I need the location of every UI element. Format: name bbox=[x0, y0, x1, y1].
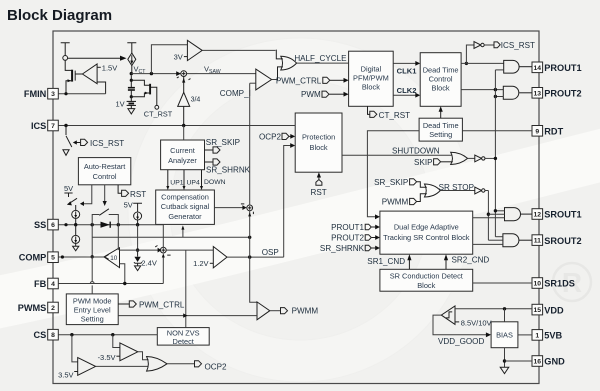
svg-text:PWM: PWM bbox=[301, 90, 321, 99]
wire 5V source down to error node bbox=[137, 225, 139, 250]
wire OSP up to protection bbox=[284, 146, 291, 258]
current source I-SS1 bbox=[72, 205, 80, 225]
buffer 3/4 bbox=[178, 77, 201, 126]
inverter U-ICSRST bbox=[465, 42, 494, 66]
8.5V/10V ref tick bbox=[455, 321, 459, 323]
pin SS 6 bbox=[34, 219, 58, 230]
wire CS to comp2 bbox=[113, 335, 120, 348]
wire SR1_CND arrow bbox=[407, 254, 411, 269]
wire COMP pin bbox=[58, 256, 104, 258]
wire OCP2 flag to protection bbox=[289, 135, 290, 137]
block U-Protection Protection Block bbox=[295, 113, 342, 172]
svg-text:8: 8 bbox=[51, 332, 55, 339]
svg-text:GND: GND bbox=[544, 357, 565, 367]
svg-text:Control: Control bbox=[93, 172, 117, 181]
ground arrow below battery bbox=[128, 109, 135, 114]
wire CS to comp1 bbox=[72, 335, 78, 362]
IC boundary bbox=[53, 31, 539, 384]
svg-text:-3.5V: -3.5V bbox=[98, 353, 116, 362]
svg-text:5V: 5V bbox=[64, 184, 73, 193]
wire comp1 to OR bbox=[96, 365, 149, 367]
svg-text:OSP: OSP bbox=[262, 248, 279, 257]
wire SRconduction to SR1DS pin bbox=[473, 282, 532, 284]
wire DeadTimeCtrl out1 to PROUT1 gate bbox=[461, 62, 504, 64]
block U-DeadTimeCtrl Dead Time Control Block bbox=[420, 53, 461, 107]
wire VDD_GOOD to BIAS bbox=[433, 315, 486, 335]
wire I1 to VCT node bbox=[131, 66, 133, 74]
svg-text:Tracking SR Control Block: Tracking SR Control Block bbox=[383, 233, 470, 242]
pin PROUT2 13 bbox=[532, 88, 582, 99]
svg-text:Current: Current bbox=[170, 146, 195, 155]
pin RDT 9 bbox=[532, 126, 564, 137]
block U-CurrentAnalyzer Current Analyzer bbox=[161, 140, 205, 170]
battery 1V bbox=[127, 97, 136, 109]
wire PWM comp output to OR bbox=[272, 79, 277, 81]
buffer U-PWMM bbox=[257, 302, 270, 320]
wire FMIN pin bbox=[58, 93, 105, 95]
wire mirror down to Q1 bbox=[65, 60, 71, 70]
flag D ICS_RST top bbox=[494, 42, 500, 48]
wire PROUT1 gate lower input bbox=[495, 69, 503, 71]
wire VDD to BIAS top bbox=[504, 309, 506, 322]
pin SROUT1 12 bbox=[532, 209, 582, 220]
svg-text:BIAS: BIAS bbox=[496, 330, 513, 339]
svg-text:SR_SHRNK: SR_SHRNK bbox=[320, 244, 365, 253]
flag D PWMM out bbox=[281, 308, 288, 314]
svg-text:CLK2: CLK2 bbox=[397, 86, 417, 95]
block U-NonZVS NON ZVS Detect bbox=[157, 328, 209, 346]
wire SR STOP bbox=[440, 190, 475, 192]
wire CS pin bbox=[58, 334, 157, 336]
wire gm upper input / error node bbox=[120, 249, 159, 251]
flag D SR_SHRNK analyzer bbox=[205, 161, 213, 163]
svg-text:SR STOP: SR STOP bbox=[439, 183, 474, 192]
svg-text:OCP2: OCP2 bbox=[205, 363, 228, 372]
svg-text:Block: Block bbox=[432, 83, 450, 92]
svg-text:FB: FB bbox=[34, 279, 47, 289]
svg-text:RST: RST bbox=[130, 190, 146, 199]
svg-text:1.2V: 1.2V bbox=[193, 259, 208, 268]
flag D SR_SKIP analyzer bbox=[205, 149, 213, 151]
op-amp U-PWM comparator bbox=[256, 69, 272, 90]
wire SROUT2 input2 bbox=[488, 239, 503, 241]
switch SW-ICSRST bbox=[63, 126, 80, 156]
svg-text:3/4: 3/4 bbox=[191, 97, 201, 104]
op-amp U-VDDGOOD comparator bbox=[441, 306, 455, 325]
svg-text:4: 4 bbox=[51, 281, 55, 288]
svg-text:UP1: UP1 bbox=[170, 179, 183, 186]
wire CLK2 bbox=[393, 94, 416, 96]
wire RST arrow into protection bbox=[318, 177, 320, 179]
inverter U-SHDN-INV bbox=[468, 155, 497, 162]
wire DeadTimeCtrl out2 to PROUT2 gate bbox=[461, 89, 503, 91]
flag D ICS_RST left bbox=[81, 139, 88, 145]
terminal CT_RST bbox=[155, 105, 159, 109]
svg-text:SS: SS bbox=[34, 220, 46, 230]
svg-text:16: 16 bbox=[534, 359, 542, 366]
svg-text:ICS: ICS bbox=[31, 121, 46, 131]
svg-text:3: 3 bbox=[51, 91, 55, 98]
wire DOWN arrow bbox=[200, 170, 203, 190]
svg-text:SR1_CND: SR1_CND bbox=[367, 257, 405, 266]
svg-text:1: 1 bbox=[535, 332, 539, 339]
svg-text:CLK1: CLK1 bbox=[397, 66, 418, 75]
wire SROUT2 to pin bbox=[519, 239, 532, 241]
block U-PWMMode PWM Mode Entry Level Setting bbox=[66, 294, 118, 325]
flag D PWMM gate bbox=[410, 198, 417, 204]
flag RST protection bbox=[316, 180, 322, 186]
wire PWMM to OR bbox=[417, 194, 427, 202]
svg-text:Compensation: Compensation bbox=[161, 193, 209, 202]
svg-text:COMP: COMP bbox=[19, 253, 47, 263]
svg-text:PROUT1: PROUT1 bbox=[331, 223, 364, 232]
wire FMIN feedback bbox=[97, 82, 106, 94]
pin COMP 5 bbox=[19, 252, 59, 263]
wire PWM_CTRL to block bbox=[330, 79, 344, 81]
svg-text:OCP2: OCP2 bbox=[259, 133, 282, 142]
wire FB line up into summer2 bbox=[162, 257, 164, 284]
svg-text:Setting: Setting bbox=[81, 314, 104, 323]
svg-text:Block: Block bbox=[310, 143, 328, 152]
svg-text:5: 5 bbox=[51, 255, 55, 262]
wire summer2 out to 1.2V comp bbox=[166, 249, 213, 251]
wire PWM mode line to buffer bbox=[118, 315, 257, 317]
svg-text:Cutback signal: Cutback signal bbox=[161, 202, 210, 211]
wire SROUT1 input2 bbox=[488, 213, 504, 215]
pin SROUT2 11 bbox=[532, 235, 582, 246]
svg-text:Dead Time: Dead Time bbox=[423, 121, 459, 130]
svg-text:Auto-Restart: Auto-Restart bbox=[84, 162, 126, 171]
block U-DualEdge Dual Edge Adaptive Tracking SR Control Block bbox=[380, 211, 473, 254]
svg-text:PFM/PWM: PFM/PWM bbox=[353, 73, 389, 82]
OR gate U-SHUTDOWN bbox=[451, 152, 468, 164]
svg-text:1V: 1V bbox=[116, 99, 125, 108]
wire OCP2 out bbox=[167, 363, 194, 365]
wire tap to 3V comparator bbox=[151, 45, 187, 74]
supply T-bar over current source bbox=[127, 43, 136, 53]
pin ICS 7 bbox=[31, 120, 58, 131]
node circle A (current mirror) bbox=[63, 56, 68, 61]
wire ICS pin bbox=[58, 125, 295, 127]
svg-text:Block Diagram: Block Diagram bbox=[7, 7, 112, 24]
1.5V ref tick bbox=[97, 66, 101, 68]
wire SR_SHRNK into dualedge bbox=[372, 247, 376, 249]
wire PROUT1 into dualedge bbox=[372, 226, 376, 228]
pin CS 8 bbox=[34, 329, 59, 340]
wire PROUT1 to pin bbox=[520, 66, 533, 68]
svg-text:3.5V: 3.5V bbox=[58, 370, 73, 379]
flag D PWM bbox=[322, 91, 329, 97]
wire PWMM buffer output bbox=[270, 310, 280, 312]
3V ref tick bbox=[184, 56, 188, 58]
svg-text:7: 7 bbox=[51, 123, 55, 130]
svg-text:Analyzer: Analyzer bbox=[168, 156, 197, 165]
svg-text:Entry Level: Entry Level bbox=[74, 305, 111, 314]
wire BIAS to 5VB bbox=[518, 334, 532, 336]
svg-text:RDT: RDT bbox=[544, 127, 563, 137]
wire mirror to current source bbox=[68, 57, 121, 59]
zener D-2.4V bbox=[134, 250, 142, 271]
flag D SKIP bbox=[434, 159, 441, 165]
svg-text:PWM_CTRL: PWM_CTRL bbox=[139, 300, 185, 309]
svg-text:Dual Edge Adaptive: Dual Edge Adaptive bbox=[394, 222, 459, 231]
current source I-SS2 bbox=[72, 225, 80, 251]
svg-text:Dead Time: Dead Time bbox=[423, 65, 459, 74]
flag D PWM_CTRL bbox=[323, 77, 330, 83]
pin FB 4 bbox=[34, 278, 58, 289]
svg-text:SR1DS: SR1DS bbox=[544, 279, 575, 289]
block U-AutoRestart Auto-Restart Control bbox=[78, 158, 130, 185]
AND gate U-PROUT2 bbox=[503, 86, 519, 99]
svg-text:11: 11 bbox=[534, 238, 541, 245]
switch SW-SSdischarge bbox=[67, 185, 92, 206]
wire GND pin bbox=[505, 360, 533, 362]
wire SS pin bbox=[58, 224, 163, 226]
wire CLK1 bbox=[393, 62, 416, 64]
op-amp U-3V comparator bbox=[187, 40, 202, 60]
svg-text:RST: RST bbox=[311, 188, 327, 197]
op-amp U-GM (x10 error amp) bbox=[104, 248, 120, 268]
svg-text:Control: Control bbox=[429, 74, 453, 83]
capacitor CT bbox=[128, 75, 135, 96]
flag D SR_SHRNK dualedge bbox=[365, 245, 371, 251]
summer S1 (VCT + 3/4 ICS) bbox=[177, 71, 191, 80]
wire VCT to summer bbox=[131, 73, 177, 75]
block U-SRConduction SR Conduction Detect Block bbox=[380, 269, 473, 291]
pin 5VB 1 bbox=[532, 330, 563, 341]
op-amp U-neg3.5V comparator bbox=[120, 343, 138, 361]
flag D PWM_CTRL out bbox=[118, 303, 129, 305]
transistor Q2 (CT reset FET) bbox=[131, 80, 157, 105]
svg-text:8.5V/10V: 8.5V/10V bbox=[461, 318, 492, 327]
pin PWMS 2 bbox=[18, 302, 59, 313]
flag D OCP2 out bbox=[195, 361, 202, 367]
wire FB pin bbox=[58, 283, 163, 285]
svg-text:PROUT1: PROUT1 bbox=[544, 63, 581, 73]
svg-text:CT_RST: CT_RST bbox=[144, 109, 173, 118]
op-amp U-1.2V comparator bbox=[213, 247, 227, 268]
block U-BIAS BIAS bbox=[491, 322, 518, 348]
wire dead time setting to RDT bbox=[367, 131, 419, 217]
svg-text:Setting: Setting bbox=[429, 130, 452, 139]
wire BIAS to GND bbox=[504, 348, 506, 367]
svg-text:15: 15 bbox=[534, 307, 542, 314]
wire SHUTDOWN bbox=[342, 154, 452, 156]
OR gate U-OCP2 bbox=[147, 357, 167, 372]
OR gate U-HALFCYCLE bbox=[281, 56, 297, 70]
-3.5V ref tick bbox=[116, 355, 120, 357]
svg-text:SR_SHRNK: SR_SHRNK bbox=[206, 166, 251, 175]
wire comp2 to OR bbox=[138, 352, 149, 360]
svg-text:14: 14 bbox=[534, 65, 542, 72]
pin VDD 15 bbox=[532, 304, 564, 315]
wire SS-COMP connector bbox=[91, 225, 93, 257]
wire SR2_CND arrow bbox=[444, 254, 448, 269]
wire COMP_I vertical net bbox=[250, 83, 257, 302]
svg-text:COMP_I: COMP_I bbox=[220, 89, 251, 98]
svg-text:UP4: UP4 bbox=[187, 179, 200, 186]
svg-text:2: 2 bbox=[51, 305, 55, 312]
svg-text:SKIP: SKIP bbox=[414, 158, 432, 167]
wire connector to PWM mode block (crossing FB) bbox=[91, 257, 93, 294]
1.2V ref tick bbox=[210, 262, 214, 264]
svg-text:CT_RST: CT_RST bbox=[379, 111, 411, 120]
pin FMIN 3 bbox=[24, 88, 58, 99]
inverter U-SRSTOP-INV bbox=[475, 187, 489, 194]
block U-DigitalPFM Digital PFM/PWM Block bbox=[349, 51, 394, 106]
wire SKIP to OR bbox=[441, 161, 453, 163]
wire SR_SKIP to OR bbox=[417, 182, 427, 188]
AND gate U-SROUT1 bbox=[505, 208, 521, 221]
AND gate U-SROUT2 bbox=[503, 234, 519, 247]
svg-text:10: 10 bbox=[534, 281, 542, 288]
svg-text:PWMM: PWMM bbox=[382, 198, 409, 207]
wire SS clamp to error node bbox=[117, 225, 119, 250]
wire SR stop vertical net bbox=[487, 191, 489, 241]
wire gm lower input from FB bbox=[120, 264, 125, 284]
svg-text:PWM_CTRL: PWM_CTRL bbox=[276, 77, 322, 86]
op-amp U-FMIN 1.5V comparator bbox=[82, 64, 97, 84]
wire ICS to current analyzer bbox=[183, 126, 185, 141]
svg-text:PROUT2: PROUT2 bbox=[331, 233, 364, 242]
svg-text:SROUT2: SROUT2 bbox=[544, 236, 581, 246]
svg-text:6: 6 bbox=[51, 222, 55, 229]
svg-text:ICS_RST: ICS_RST bbox=[90, 139, 124, 148]
wire SS to summer2 bbox=[162, 225, 164, 248]
svg-text:PWMM: PWMM bbox=[292, 307, 319, 316]
flag D CT_RST bbox=[368, 106, 370, 114]
op-amp U-3.5V comparator bbox=[78, 358, 96, 376]
svg-text:DOWN: DOWN bbox=[204, 179, 226, 186]
svg-text:SR Conduction Detect: SR Conduction Detect bbox=[390, 272, 463, 281]
svg-text:SHUTDOWN: SHUTDOWN bbox=[392, 146, 440, 155]
svg-text:PWM Mode: PWM Mode bbox=[73, 296, 112, 305]
wire SROUT2 input1 bbox=[495, 236, 503, 238]
wire VSAW bbox=[187, 73, 256, 75]
3.5V ref tick bbox=[74, 371, 78, 373]
svg-text:Digital: Digital bbox=[361, 64, 382, 73]
svg-text:Protection: Protection bbox=[302, 132, 335, 141]
wire SS bypass loop bbox=[92, 215, 118, 225]
svg-text:SR2_CND: SR2_CND bbox=[452, 256, 490, 265]
wire compensation bottom feed bbox=[182, 229, 184, 238]
wire SROUT1 input3 from dualedge bbox=[473, 217, 505, 219]
wire RDT pin bbox=[462, 130, 532, 132]
transistor Q1 (FMIN mirror FET) bbox=[66, 70, 82, 94]
svg-text:5V: 5V bbox=[124, 200, 133, 209]
svg-text:PWMS: PWMS bbox=[18, 303, 47, 313]
svg-text:10: 10 bbox=[110, 255, 118, 262]
flag D SR_SKIP gate bbox=[410, 179, 417, 185]
wire SROUT1 to pin bbox=[520, 213, 532, 215]
wire PROUT2 to pin bbox=[519, 92, 532, 94]
wire HALF_CYCLE bbox=[297, 62, 349, 64]
wire dead time setting up arrow bbox=[440, 111, 442, 118]
pin SR1DS 10 bbox=[532, 278, 575, 289]
wire 3V comp output to OR gate bbox=[202, 49, 275, 51]
summer S3 (COMP_I summer) bbox=[241, 204, 254, 214]
wire branch down to NON ZVS bbox=[185, 250, 187, 328]
wire COMP_I input bbox=[250, 82, 256, 84]
switch SW-SSbypass bbox=[99, 185, 109, 216]
wire OSP bbox=[227, 256, 284, 258]
wire SROUT1 input1 bbox=[495, 210, 504, 212]
block U-CompGen Compensation Cutback signal Generator bbox=[156, 190, 215, 224]
wire SROUT2 input3 from dualedge bbox=[473, 243, 503, 245]
svg-text:Generator: Generator bbox=[168, 212, 202, 221]
pin GND 16 bbox=[532, 356, 565, 367]
flag D PROUT1 dualedge bbox=[365, 224, 371, 230]
svg-text:VDD: VDD bbox=[544, 305, 564, 315]
wire PROUT2 gate lower input bbox=[495, 96, 503, 98]
svg-text:SR_SKIP: SR_SKIP bbox=[374, 178, 408, 187]
svg-text:HALF_CYCLE: HALF_CYCLE bbox=[294, 54, 347, 63]
AND gate U-PROUT1 bbox=[504, 60, 519, 73]
current source I1 (CT charge, diamond) bbox=[128, 53, 136, 66]
svg-text:2.4V: 2.4V bbox=[141, 259, 156, 268]
wire UP4 arrow bbox=[183, 170, 186, 190]
svg-text:13: 13 bbox=[534, 90, 542, 97]
svg-text:1.5V: 1.5V bbox=[102, 63, 117, 72]
summer S2 (error summer) bbox=[155, 246, 170, 256]
svg-text:VDD_GOOD: VDD_GOOD bbox=[438, 337, 484, 346]
block U-DeadTimeSet Dead Time Setting bbox=[419, 118, 462, 141]
wire enable vertical net bbox=[494, 70, 496, 237]
OR gate U-SRSTOP bbox=[425, 184, 441, 197]
svg-text:PROUT2: PROUT2 bbox=[544, 89, 581, 99]
wire PROUT2 into dualedge bbox=[372, 237, 376, 239]
wire PWM to block bbox=[329, 93, 344, 95]
wire mid branch to COMP_I net bbox=[92, 236, 250, 238]
svg-text:SR_SKIP: SR_SKIP bbox=[206, 138, 240, 147]
svg-text:12: 12 bbox=[534, 212, 542, 219]
pin PROUT1 14 bbox=[532, 62, 582, 73]
node VCT bbox=[130, 72, 133, 75]
svg-text:Detect: Detect bbox=[173, 337, 194, 346]
ground symbol bbox=[500, 367, 509, 373]
svg-text:9: 9 bbox=[535, 128, 539, 135]
svg-text:5VB: 5VB bbox=[544, 331, 562, 341]
wire UP1 arrow bbox=[166, 170, 169, 190]
flag D PROUT2 dualedge bbox=[365, 235, 371, 241]
svg-text:Block: Block bbox=[417, 281, 435, 290]
diode D-SS bbox=[101, 222, 111, 228]
svg-text:Block: Block bbox=[362, 82, 380, 91]
svg-text:SROUT1: SROUT1 bbox=[544, 210, 581, 220]
svg-text:3V: 3V bbox=[174, 52, 183, 61]
svg-text:ICS_RST: ICS_RST bbox=[501, 41, 535, 50]
flag D RST (auto-restart) bbox=[118, 185, 121, 194]
current source I-SS3 bbox=[134, 208, 142, 225]
supply T-bar left bbox=[61, 43, 70, 56]
wire VDD sense bbox=[455, 308, 532, 310]
flag D OCP2 input bbox=[282, 133, 289, 139]
wire compensation out to summer3 bbox=[214, 207, 244, 209]
svg-text:CS: CS bbox=[34, 330, 47, 340]
svg-text:FMIN: FMIN bbox=[24, 89, 47, 99]
